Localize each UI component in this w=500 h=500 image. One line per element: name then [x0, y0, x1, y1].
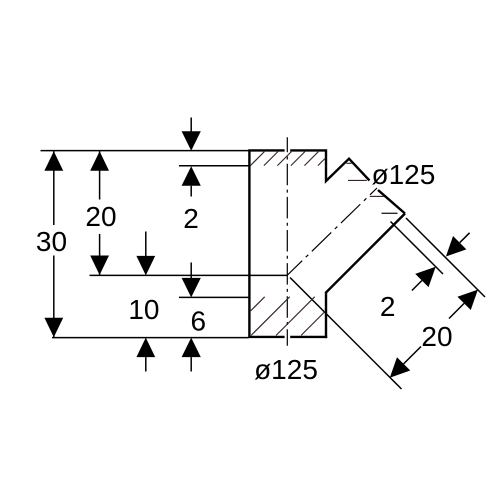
- svg-text:6: 6: [191, 306, 207, 337]
- svg-text:ø125: ø125: [371, 159, 435, 190]
- svg-text:10: 10: [128, 294, 159, 325]
- svg-text:2: 2: [380, 291, 396, 322]
- svg-text:30: 30: [36, 226, 67, 257]
- svg-text:ø125: ø125: [254, 354, 318, 385]
- svg-text:2: 2: [183, 203, 199, 234]
- svg-text:20: 20: [85, 201, 116, 232]
- svg-text:20: 20: [421, 321, 452, 352]
